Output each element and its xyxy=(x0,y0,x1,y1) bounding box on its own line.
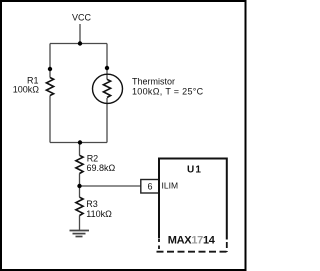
svg-text:MAX1714: MAX1714 xyxy=(168,235,216,247)
svg-text:110kΩ: 110kΩ xyxy=(86,209,112,219)
svg-text:6: 6 xyxy=(147,181,152,191)
svg-text:VCC: VCC xyxy=(72,13,92,23)
svg-text:ILIM: ILIM xyxy=(162,180,179,190)
svg-text:U1: U1 xyxy=(187,164,202,175)
svg-text:100kΩ, T = 25°C: 100kΩ, T = 25°C xyxy=(132,87,204,97)
svg-text:R3: R3 xyxy=(86,199,98,209)
svg-text:69.8kΩ: 69.8kΩ xyxy=(87,163,116,173)
svg-text:100kΩ: 100kΩ xyxy=(13,85,40,95)
svg-text:Thermistor: Thermistor xyxy=(132,76,175,86)
